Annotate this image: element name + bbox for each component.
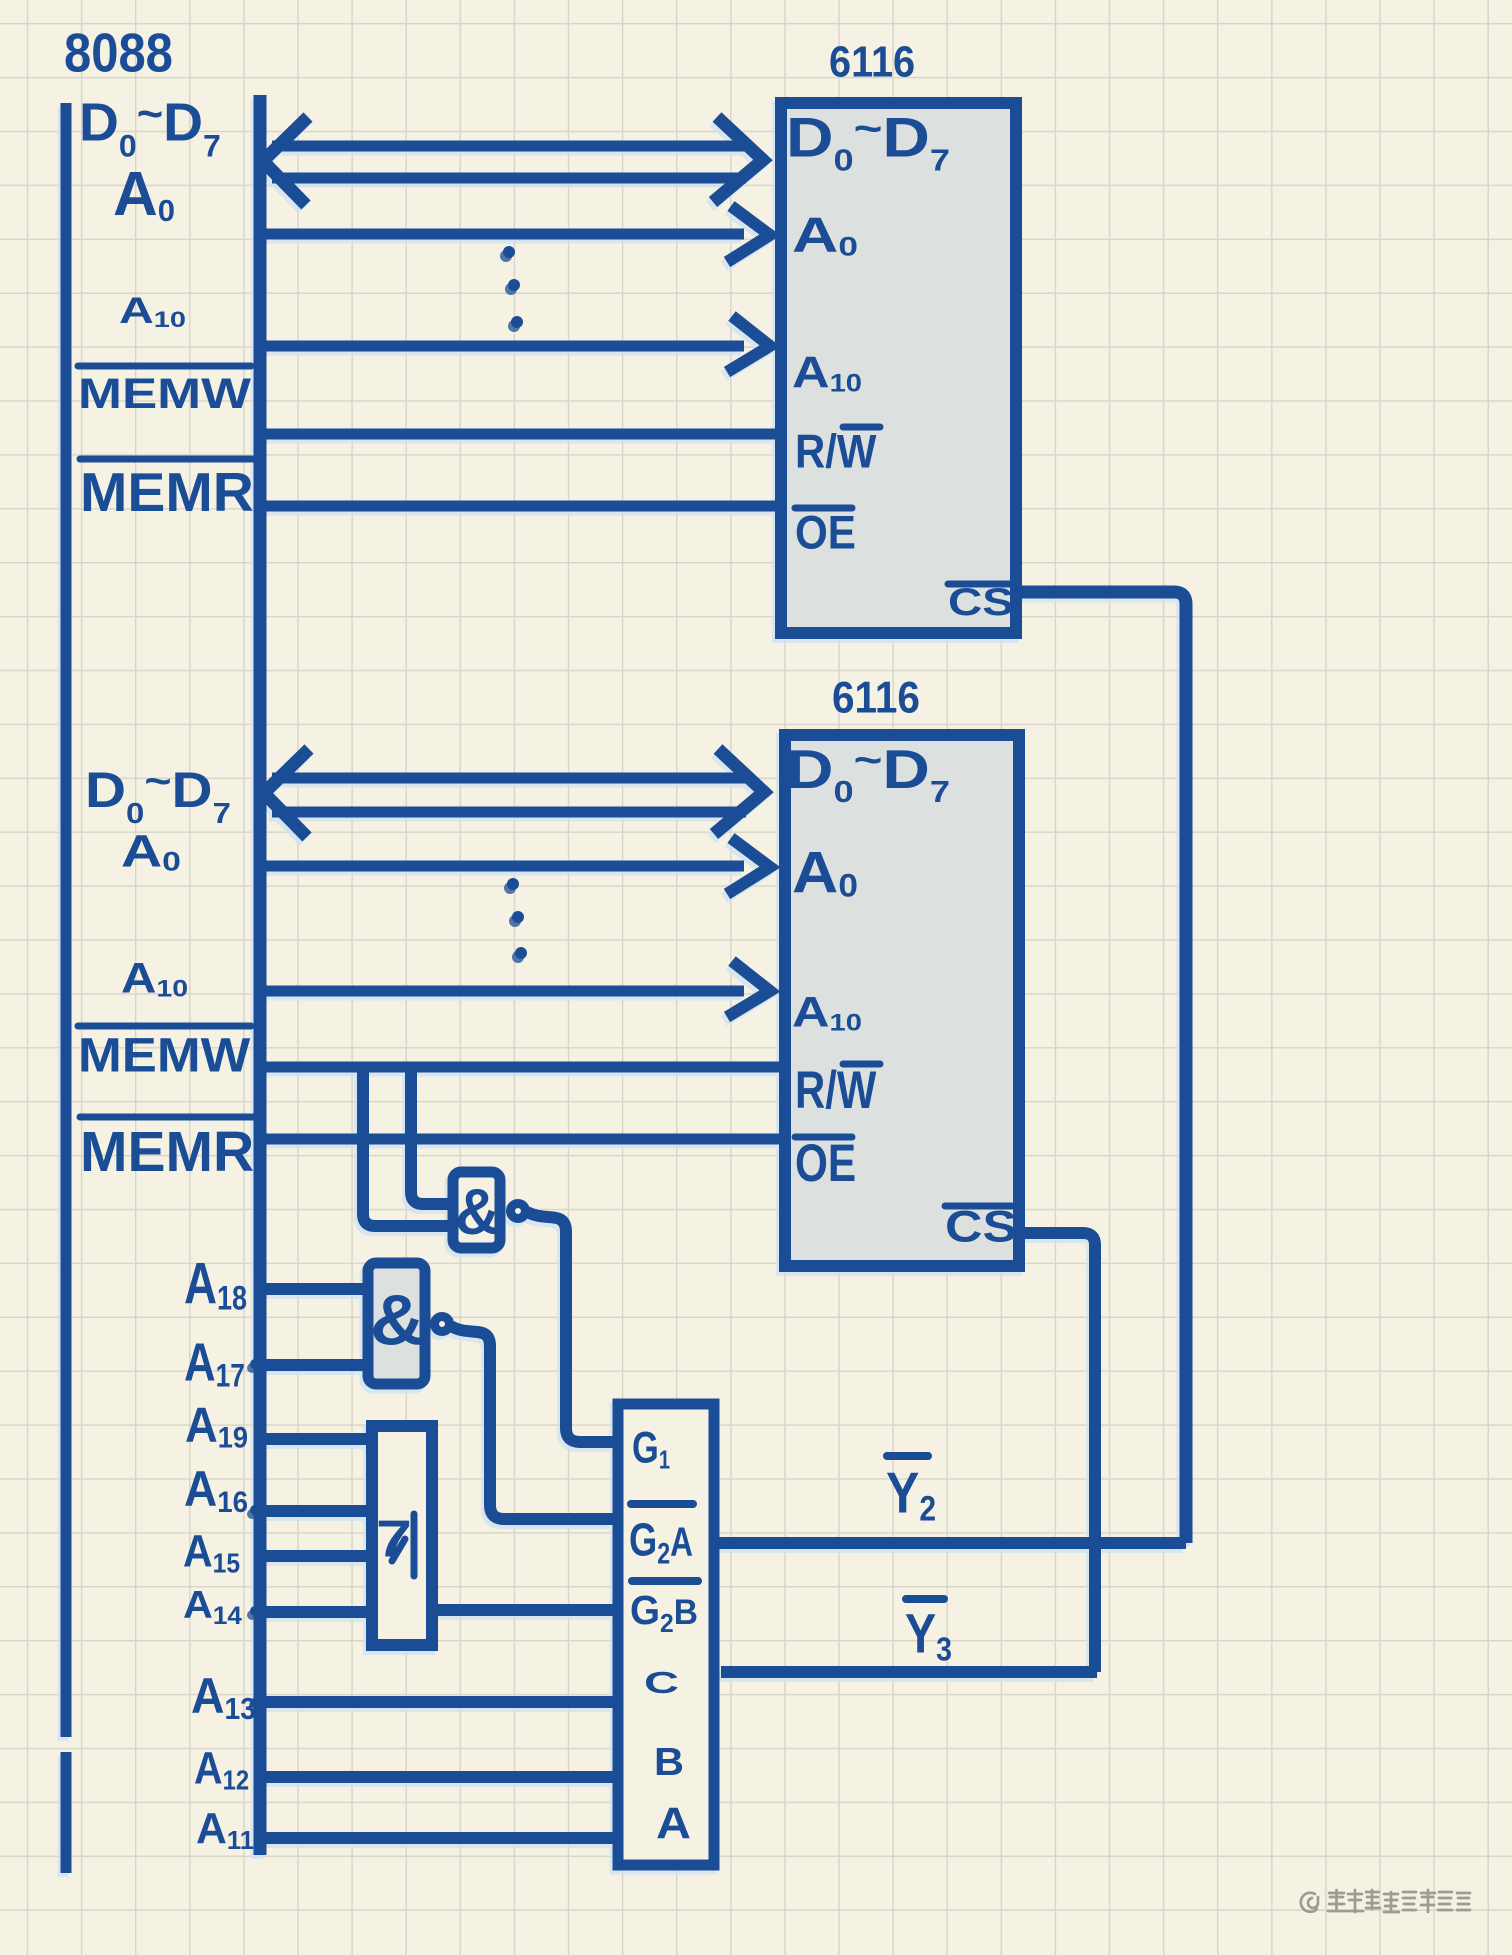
net label A11: [196, 1805, 254, 1856]
pin label R/W chip U2: [795, 1061, 877, 1120]
pin label G2A decoder: [629, 1513, 693, 1570]
svg-text:MEMR: MEMR: [80, 1120, 254, 1184]
chip U6 decoder fill: [618, 1404, 714, 1865]
chip U5 74 fill: [372, 1426, 432, 1645]
net label D0~D7 bus section 1: [79, 88, 221, 164]
chip U5 label 74 bar and tick: [392, 1514, 414, 1576]
net label A10 bus section 1: [119, 290, 186, 332]
svg-text:A: A: [656, 1798, 691, 1848]
net label Y3 overline: [906, 1595, 944, 1603]
net label A19: [185, 1397, 248, 1454]
net label A15: [183, 1527, 240, 1579]
net label Y2 overline: [887, 1452, 928, 1460]
pin label A10 chip U1: [792, 348, 862, 398]
pin label C decoder: [644, 1665, 679, 1700]
chip U2 name 6116: [832, 673, 920, 722]
svg-text:OE: OE: [795, 505, 856, 559]
net label MEMR section 2 overline: [80, 1114, 254, 1121]
pin label G2A decoder overline: [631, 1500, 693, 1508]
svg-text:MEMR: MEMR: [80, 462, 254, 523]
pin label CS chip U1: [948, 581, 1014, 624]
pin label D0~D7 chip U2: [786, 737, 950, 809]
pin label R/W chip U1: [795, 424, 877, 478]
chip U2 6116 fill: [785, 735, 1019, 1266]
chip U1 6116 fill: [781, 103, 1016, 633]
svg-text:7: 7: [376, 1510, 412, 1568]
svg-text:MEMW: MEMW: [78, 371, 252, 418]
net label MEMW section 1: [78, 371, 252, 418]
svg-text:8088: 8088: [64, 22, 173, 83]
pin label CS chip U2: [945, 1202, 1017, 1252]
svg-text:B: B: [654, 1739, 684, 1784]
svg-text:C: C: [644, 1665, 679, 1700]
net label MEMR section 1: [80, 462, 254, 523]
net label A13: [191, 1668, 256, 1726]
pin label OE chip U2: [795, 1135, 856, 1193]
pin label OE chip U1 overline: [795, 505, 852, 512]
chip U1 name 6116: [829, 37, 915, 86]
svg-text:6116: 6116: [829, 37, 915, 86]
pin label A10 chip U2: [792, 989, 862, 1037]
svg-text:&: &: [455, 1176, 500, 1248]
svg-text:&: &: [370, 1280, 425, 1360]
svg-text:R/W: R/W: [795, 424, 877, 478]
net label A0 bus section 1: [113, 160, 175, 229]
pin label G1 decoder: [632, 1423, 670, 1474]
net label MEMW section 2 overline: [78, 1023, 251, 1030]
chip U5 label 74: [376, 1510, 412, 1568]
net label Y3: [905, 1603, 952, 1668]
pin label R/W chip U2 overline: [843, 1061, 880, 1068]
net label A14: [183, 1582, 242, 1630]
net label D0~D7 bus section 2: [85, 758, 231, 829]
svg-text:CS: CS: [945, 1202, 1017, 1252]
net label MEMR section 2: [80, 1120, 254, 1184]
net label A0 bus section 2: [121, 825, 181, 876]
watermark juejin community: [1301, 1890, 1470, 1912]
gate U3 NAND1 bubble fill: [511, 1204, 526, 1219]
pin label OE chip U2 overline: [795, 1134, 852, 1141]
svg-text:6116: 6116: [832, 673, 920, 722]
pin label G2B decoder: [630, 1588, 698, 1638]
net label A16: [184, 1462, 248, 1519]
net label MEMR section 1 overline: [80, 456, 254, 463]
net label MEMW section 1 overline: [78, 363, 251, 370]
net label MEMW section 2: [78, 1027, 251, 1082]
net label Y2: [886, 1461, 936, 1528]
pin label D0~D7 chip U1: [786, 105, 950, 178]
gate U4 NAND2 fill: [368, 1263, 425, 1384]
gate U4 NAND2 bubble fill: [435, 1317, 450, 1332]
gate U4 NAND ampersand: [370, 1280, 425, 1360]
marker glow shadow: [63, 99, 1183, 1877]
svg-text:OE: OE: [795, 1135, 856, 1193]
pin label A0 chip U1: [792, 208, 858, 263]
pin label A decoder: [656, 1798, 691, 1848]
label 8088: [64, 22, 173, 83]
pin label B decoder: [654, 1739, 684, 1784]
pin label G2B decoder overline: [632, 1577, 698, 1585]
pin label CS chip U2 overline: [945, 1203, 1012, 1210]
gate U3 NAND1 fill: [453, 1172, 500, 1248]
pin label OE chip U1: [795, 505, 856, 559]
pin label CS chip U1 overline: [948, 581, 1012, 588]
main ink: [66, 95, 1186, 1873]
pin label A0 chip U2: [792, 839, 858, 905]
pin label R/W chip U1 overline: [843, 424, 880, 431]
net label A18: [184, 1252, 247, 1317]
net label A17: [184, 1332, 245, 1394]
svg-text:R/W: R/W: [795, 1061, 877, 1120]
net label A10 bus section 2: [121, 955, 188, 1002]
svg-text:MEMW: MEMW: [78, 1027, 251, 1082]
svg-text:CS: CS: [948, 581, 1014, 624]
net label A12: [194, 1743, 249, 1796]
gate U3 NAND ampersand: [455, 1176, 500, 1248]
